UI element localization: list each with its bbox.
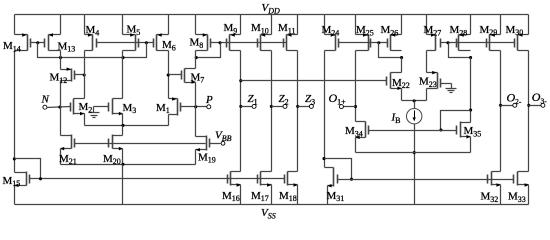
svg-text:N: N — [41, 94, 50, 106]
svg-text:P: P — [205, 94, 213, 106]
